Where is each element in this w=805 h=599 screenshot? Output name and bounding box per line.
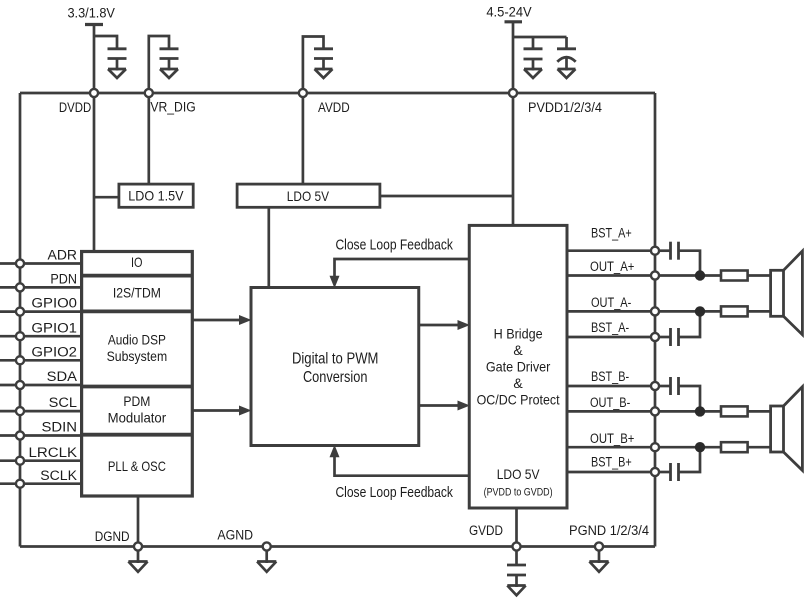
wire divider below IO <box>82 274 193 278</box>
node junction OUT_B-/BST_B- <box>695 406 705 416</box>
svg-text:OC/DC Protect: OC/DC Protect <box>477 392 560 408</box>
ground (below C10) <box>507 586 525 596</box>
node LRCLK terminal <box>16 457 24 465</box>
wire divider below I2S/TDM <box>82 309 193 313</box>
svg-text:PDN: PDN <box>50 272 77 287</box>
node OUT_A- terminal <box>651 307 659 315</box>
ground PGND <box>589 562 608 572</box>
wire AGND ground stub <box>265 547 268 564</box>
svg-text:Close Loop Feedback: Close Loop Feedback <box>335 485 453 501</box>
wire OUT_B- to speaker <box>655 410 721 413</box>
wire pin LRCLK <box>0 459 82 462</box>
svg-text:SDA: SDA <box>47 369 77 384</box>
svg-text:Gate Driver: Gate Driver <box>486 359 551 375</box>
svg-text:AVDD: AVDD <box>318 100 350 116</box>
node AVDD junction <box>299 89 307 97</box>
node AGND junction <box>263 542 271 550</box>
resistor R2 (OUT_A-) <box>721 306 748 316</box>
wire DGND from digital block <box>137 496 140 547</box>
ground AGND <box>257 562 276 572</box>
wire OUT_A+ stub <box>567 274 655 277</box>
svg-text:&: & <box>513 375 523 391</box>
wire PWM to H-bridge (lower) <box>419 404 459 407</box>
wire DSP to PWM (lower) <box>192 409 242 412</box>
wire VR_DIG cap branch <box>149 36 169 93</box>
svg-text:PDM: PDM <box>123 393 150 409</box>
node BST_B+ terminal <box>651 468 659 476</box>
wire BST_B- stub <box>567 385 655 388</box>
wire DVDD feed to digital block <box>93 93 96 252</box>
block U2 LDO 5V <box>237 184 380 207</box>
svg-text:GPIO0: GPIO0 <box>31 296 77 311</box>
block U3 digital core (IO/I2S/DSP/PDM/PLL) <box>82 252 193 497</box>
svg-text:VR_DIG: VR_DIG <box>150 100 195 116</box>
wire PVDD cap branch <box>513 36 567 39</box>
wire OUT_B- stub <box>567 410 655 413</box>
svg-text:4.5-24V: 4.5-24V <box>486 4 532 20</box>
svg-text:BST_A-: BST_A- <box>591 320 629 335</box>
node OUT_A+ terminal <box>651 271 659 279</box>
block U4 Digital to PWM Conversion <box>251 288 419 446</box>
wire R1 to speaker A <box>748 274 771 277</box>
capacitor C2 (VR_DIG decoupling) <box>160 49 179 71</box>
wire pin GPIO2 <box>0 359 82 362</box>
wire DGND ground stub <box>137 547 140 564</box>
capacitor C3 (AVDD decoupling) <box>314 49 333 71</box>
node GPIO0 terminal <box>16 308 24 316</box>
svg-text:OUT_B-: OUT_B- <box>590 395 630 410</box>
svg-text:OUT_A-: OUT_A- <box>591 295 631 310</box>
node GPIO1 terminal <box>16 332 24 340</box>
svg-text:LRCLK: LRCLK <box>29 445 78 460</box>
node DVDD junction <box>90 89 98 97</box>
wire LDO 5V output to PWM block <box>267 207 270 287</box>
wire R2 to speaker A <box>748 310 771 313</box>
node OUT_B+ terminal <box>651 443 659 451</box>
svg-text:OUT_A+: OUT_A+ <box>590 259 635 274</box>
node PVDD junction <box>509 89 517 97</box>
node PGND junction <box>595 542 603 550</box>
svg-text:PGND 1/2/3/4: PGND 1/2/3/4 <box>569 523 649 539</box>
svg-text:Close Loop Feedback: Close Loop Feedback <box>335 237 453 253</box>
ground (below C1) <box>108 69 126 78</box>
wire pin SDIN <box>0 434 82 437</box>
wire right output rail <box>654 93 657 547</box>
node VR_DIG junction <box>145 89 153 97</box>
arrowhead feedback top (into PWM top) <box>330 276 340 289</box>
wire OUT_A- stub <box>567 310 655 313</box>
svg-text:Subsystem: Subsystem <box>107 348 168 364</box>
svg-text:Modulator: Modulator <box>108 409 167 425</box>
wire divider below PDM Modulator <box>82 433 193 437</box>
capacitor C7 (bootstrap BST_A-) <box>655 311 700 346</box>
svg-text:LDO 1.5V: LDO 1.5V <box>128 188 184 204</box>
speaker SPK1 (channel A) <box>771 251 803 335</box>
svg-text:GVDD: GVDD <box>469 523 503 539</box>
svg-text:BST_A+: BST_A+ <box>591 225 632 240</box>
svg-text:OUT_B+: OUT_B+ <box>590 431 635 446</box>
node GVDD junction <box>512 542 520 550</box>
svg-text:Conversion: Conversion <box>303 369 368 386</box>
node SDA terminal <box>16 381 24 389</box>
svg-text:PLL & OSC: PLL & OSC <box>108 458 166 474</box>
wire OUT_B+ stub <box>567 446 655 449</box>
wire DVDD branch to LDO 1.5V <box>94 196 119 199</box>
wire BST_A- stub <box>567 336 655 339</box>
arrowhead PWM to H-bridge (lower) <box>458 401 471 411</box>
resistor R3 (OUT_B-) <box>721 406 748 416</box>
capacitor C8 (bootstrap BST_B-) <box>655 377 700 411</box>
svg-text:I2S/TDM: I2S/TDM <box>113 284 161 300</box>
wire GVDD cap stub <box>515 547 518 566</box>
wire pin SDA <box>0 384 82 387</box>
wire pin SCL <box>0 410 82 413</box>
resistor R4 (OUT_B+) <box>721 442 748 452</box>
svg-text:BST_B+: BST_B+ <box>591 455 632 470</box>
wire PGND ground stub <box>598 547 601 564</box>
block U5 H Bridge / Gate Driver <box>469 225 567 508</box>
wire DSP to PWM (upper) <box>192 319 242 322</box>
wire R3 to speaker B <box>748 410 771 413</box>
svg-text:BST_B-: BST_B- <box>591 369 629 384</box>
wire DVDD cap branch <box>94 36 117 49</box>
svg-text:LDO 5V: LDO 5V <box>497 466 540 482</box>
svg-text:H Bridge: H Bridge <box>494 326 543 342</box>
wire OUT_B+ to speaker <box>655 446 721 449</box>
wire pin GPIO0 <box>0 310 82 313</box>
svg-text:AGND: AGND <box>217 528 253 544</box>
svg-text:GPIO2: GPIO2 <box>31 344 77 359</box>
capacitor C10 (GVDD decoupling) <box>507 565 526 587</box>
ground DGND <box>128 562 147 572</box>
node junction OUT_B+/BST_B+ <box>695 442 705 452</box>
svg-text:PVDD1/2/3/4: PVDD1/2/3/4 <box>528 100 602 116</box>
svg-text:SCLK: SCLK <box>40 468 77 483</box>
wire AVDD feed to LDO 5V <box>302 93 305 184</box>
supply 3.3/1.8V terminal bar <box>85 25 103 94</box>
node SCL terminal <box>16 407 24 415</box>
svg-text:LDO 5V: LDO 5V <box>287 188 330 204</box>
wire pin PDN <box>0 286 82 289</box>
arrowhead DSP to PWM (lower) <box>239 406 252 416</box>
node junction OUT_A+/BST_A+ <box>695 270 705 280</box>
resistor R1 (OUT_A+) <box>721 271 748 281</box>
node DGND junction <box>134 542 142 550</box>
svg-text:DGND: DGND <box>95 529 130 545</box>
wire divider below Audio DSP <box>82 385 193 389</box>
node GPIO2 terminal <box>16 356 24 364</box>
wire R4 to speaker B <box>748 446 771 449</box>
node BST_A+ terminal <box>651 247 659 255</box>
svg-text:DVDD: DVDD <box>59 100 91 116</box>
wire PVDD feed to H-bridge <box>512 93 515 225</box>
node junction OUT_A-/BST_A- <box>695 306 705 316</box>
node BST_A- terminal <box>651 333 659 341</box>
svg-text:(PVDD to GVDD): (PVDD to GVDD) <box>484 486 553 498</box>
capacitor C5 (PVDD bulk, polarized) <box>557 37 576 71</box>
arrowhead PWM to H-bridge (upper) <box>458 320 471 330</box>
svg-text:&: & <box>513 342 523 358</box>
node PDN terminal <box>16 283 24 291</box>
wire BST_B+ stub <box>567 471 655 474</box>
arrowhead feedback bottom (into PWM bottom) <box>330 445 340 458</box>
svg-text:3.3/1.8V: 3.3/1.8V <box>67 5 115 21</box>
wire close-loop feedback top <box>335 259 470 276</box>
ground (below C5) <box>558 69 576 78</box>
ground (below C2) <box>160 69 178 78</box>
wire left pin rail <box>19 93 22 547</box>
wire OUT_A- to speaker <box>655 310 721 313</box>
svg-text:GPIO1: GPIO1 <box>31 320 77 335</box>
wire VR_DIG feed to LDO 1.5V <box>147 93 150 184</box>
wire BST_A+ stub <box>567 249 655 252</box>
ground (below C4) <box>524 69 542 78</box>
capacitor C6 (bootstrap BST_A+) <box>655 242 700 276</box>
wire OUT_A+ to speaker <box>655 274 721 277</box>
wire LDO 5V output to PVDD line <box>380 195 513 198</box>
node ADR terminal <box>16 259 24 267</box>
svg-text:SCL: SCL <box>49 395 77 410</box>
supply 4.5-24V terminal bar <box>505 22 523 93</box>
capacitor C9 (bootstrap BST_B+) <box>655 447 700 481</box>
svg-text:IO: IO <box>131 254 143 270</box>
node SDIN terminal <box>16 431 24 439</box>
speaker SPK2 (channel B) <box>771 387 803 471</box>
ground (below C3) <box>315 69 333 78</box>
svg-text:Digital to PWM: Digital to PWM <box>292 350 379 367</box>
svg-text:ADR: ADR <box>48 248 78 263</box>
wire PWM to H-bridge (upper) <box>419 324 459 327</box>
wire close-loop feedback bottom <box>335 457 470 476</box>
wire pin GPIO1 <box>0 335 82 338</box>
node SCLK terminal <box>16 480 24 488</box>
wire pin ADR <box>0 262 82 265</box>
capacitor C1 (DVDD decoupling) <box>108 49 127 71</box>
wire top bus (DVDD/AVDD/PVDD rail) <box>20 92 655 95</box>
arrowhead DSP to PWM (upper) <box>239 315 252 325</box>
svg-text:Audio DSP: Audio DSP <box>108 331 166 347</box>
node BST_B- terminal <box>651 382 659 390</box>
svg-text:SDIN: SDIN <box>42 420 78 435</box>
capacitor C4 (PVDD decoupling) <box>524 37 543 71</box>
block U1 LDO 1.5V <box>119 184 193 207</box>
wire GVDD from H-bridge <box>515 508 518 547</box>
wire bottom ground bus <box>20 545 655 548</box>
node OUT_B- terminal <box>651 407 659 415</box>
wire AVDD cap branch <box>303 37 324 94</box>
wire pin SCLK <box>0 482 82 485</box>
